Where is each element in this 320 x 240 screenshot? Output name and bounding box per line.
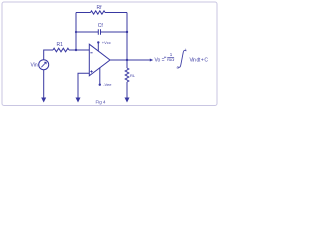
+Vcc terminal dot — [97, 41, 99, 43]
op-amp minus sign — [90, 52, 92, 54]
svg-text:Vo =: Vo = — [155, 58, 165, 64]
wire: non-inverting input — [78, 73, 89, 98]
junction node Cf right — [126, 31, 128, 33]
wire: Cf loop left segment — [76, 31, 98, 33]
wire: top feedback left segment — [76, 12, 91, 14]
op-amp plus sign — [90, 70, 92, 72]
wire: Vin to R1 — [44, 50, 53, 60]
svg-text:-Vee: -Vee — [103, 82, 112, 87]
resistor RL — [125, 60, 129, 98]
source Vin circle — [39, 60, 49, 70]
-Vee terminal dot — [99, 84, 101, 86]
svg-text:Fig 4: Fig 4 — [96, 100, 107, 105]
source arrow inside Vin — [41, 62, 46, 67]
svg-text:R1 Cf: R1 Cf — [167, 57, 175, 62]
ground under Vin — [41, 98, 46, 103]
junction node Cf left — [75, 31, 77, 33]
wire: -Vee stub — [99, 68, 101, 85]
junction node output — [126, 59, 128, 61]
ground under non-inverting input — [76, 98, 81, 103]
wire: Vin bottom to ground — [43, 70, 45, 98]
svg-text:Vin dt + C: Vin dt + C — [190, 58, 209, 64]
output arrowhead — [150, 59, 153, 62]
wire: right feedback vertical — [126, 13, 128, 61]
wire: +Vcc stub — [97, 43, 99, 52]
svg-text:RL: RL — [130, 73, 136, 78]
capacitor C f plates — [98, 29, 100, 35]
ground under RL — [125, 98, 130, 103]
svg-text:Vin: Vin — [31, 63, 38, 69]
svg-text:+Vcc: +Vcc — [102, 40, 111, 45]
wire: left feedback vertical — [75, 13, 77, 51]
wire: top feedback right segment — [105, 12, 127, 14]
op-amp U1 triangle — [89, 44, 110, 76]
output formula — [155, 47, 209, 70]
junction node at inverting input — [75, 49, 77, 51]
wire: output — [110, 59, 151, 61]
formula fraction bar — [167, 56, 174, 59]
svg-text:R1: R1 — [57, 42, 64, 48]
wire: Cf loop right segment — [101, 31, 128, 33]
svg-text:Rf: Rf — [97, 5, 103, 11]
resistor Rf — [91, 11, 106, 14]
resistor R1 — [53, 48, 69, 52]
svg-text:Cf: Cf — [98, 23, 104, 29]
formula integral sign — [178, 50, 187, 67]
formula minus sign — [164, 56, 166, 59]
border frame — [2, 2, 217, 106]
wire: R1 to inverting input — [69, 49, 89, 51]
